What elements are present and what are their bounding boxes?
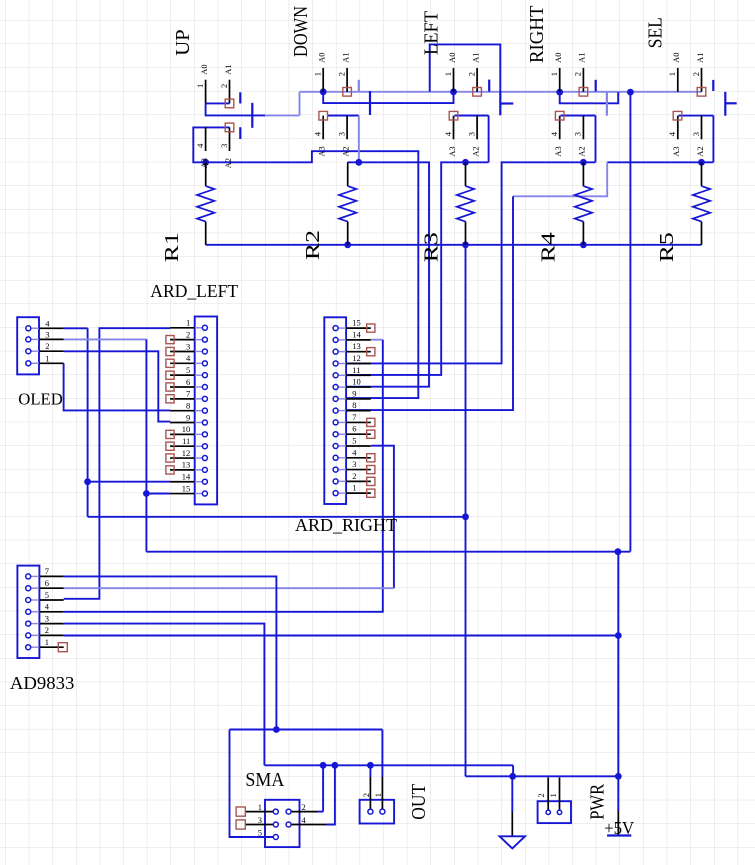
svg-text:11: 11 bbox=[182, 436, 190, 446]
svg-text:1: 1 bbox=[443, 72, 453, 76]
svg-text:RIGHT: RIGHT bbox=[526, 6, 548, 64]
ARD_LEFT pin 11 unconnected square bbox=[166, 442, 174, 450]
RIGHT unconnected pin square bbox=[555, 111, 564, 120]
LEFT pin 3 line bbox=[476, 116, 478, 140]
connector PWR bbox=[536, 778, 609, 824]
svg-text:A0: A0 bbox=[199, 64, 209, 74]
SMA pin 4 bbox=[291, 824, 326, 826]
svg-text:5: 5 bbox=[352, 436, 356, 446]
ARD_RIGHT pin 11 bbox=[346, 374, 371, 376]
svg-text:2: 2 bbox=[691, 72, 701, 76]
resistor R2 bbox=[302, 162, 357, 260]
connector ARD_RIGHT bbox=[295, 317, 397, 535]
svg-text:5: 5 bbox=[258, 828, 262, 838]
resistor R4 bbox=[538, 162, 593, 262]
svg-text:1: 1 bbox=[373, 793, 383, 797]
svg-text:ARD_RIGHT: ARD_RIGHT bbox=[295, 515, 397, 535]
wire: long horizontal y=517 bbox=[88, 516, 466, 518]
svg-text:R2: R2 bbox=[302, 230, 324, 260]
SMA pin 2 bbox=[291, 811, 317, 813]
SEL pin 2 line bbox=[701, 68, 703, 92]
svg-text:13: 13 bbox=[352, 341, 361, 351]
svg-text:DOWN: DOWN bbox=[290, 6, 312, 57]
ARD_LEFT pin 3 bbox=[170, 350, 195, 352]
+5V supply symbol bbox=[604, 811, 634, 838]
wire: AD9833 pin7 to SMA pin5 / OUT pin1 bbox=[64, 576, 277, 729]
junction bbox=[462, 241, 469, 248]
wire: SEL lower row bbox=[679, 115, 714, 117]
ARD_LEFT pin 1 bbox=[170, 327, 195, 329]
ARD_RIGHT pin 5 bbox=[346, 445, 371, 447]
wire: ARD_RIGHT pin5 down to AD9833 pin6 bbox=[371, 446, 394, 589]
wire: jog down to PWR row bbox=[513, 765, 618, 776]
ARD_LEFT pin 5 bbox=[170, 374, 195, 376]
ARD_LEFT pin 12 unconnected square bbox=[166, 454, 174, 462]
svg-text:4: 4 bbox=[667, 131, 677, 136]
ARD_RIGHT pin 10 bbox=[346, 386, 371, 388]
ARD_RIGHT pin 15 unconnected square bbox=[367, 324, 375, 332]
ARD_RIGHT pin 2 unconnected square bbox=[367, 477, 375, 485]
svg-text:2: 2 bbox=[352, 471, 356, 481]
LEFT switch contact bbox=[488, 80, 490, 92]
svg-text:1: 1 bbox=[195, 84, 205, 88]
wire: R2 node to ARD_RIGHT pin10 bbox=[346, 162, 429, 386]
svg-text:PWR: PWR bbox=[587, 783, 609, 820]
pushbutton DOWN bbox=[290, 6, 370, 157]
OLED pin 3 bbox=[31, 338, 39, 340]
RIGHT pin 1 line bbox=[559, 68, 561, 92]
wire: +5V stub bbox=[617, 776, 619, 811]
svg-text:7: 7 bbox=[45, 566, 49, 576]
svg-text:A3: A3 bbox=[671, 146, 681, 156]
svg-text:A1: A1 bbox=[223, 64, 233, 74]
svg-text:2: 2 bbox=[536, 793, 546, 797]
ARD_RIGHT pin 1 unconnected square bbox=[367, 489, 375, 497]
wire: AD9833 pin2 row to +5V vertical bbox=[64, 635, 619, 637]
wire: UP pins1-2 to bus elbow bbox=[206, 103, 265, 115]
svg-text:4: 4 bbox=[186, 353, 191, 363]
wire: +5V branch from bus top at x=630.4 bbox=[629, 92, 631, 551]
LEFT pin 1 line bbox=[453, 68, 455, 92]
OLED pin 1 bbox=[31, 362, 39, 364]
junction bbox=[462, 513, 469, 520]
wire: branch to ARD_LEFT pin14 bbox=[88, 481, 171, 483]
svg-text:10: 10 bbox=[182, 424, 191, 434]
svg-text:A2: A2 bbox=[577, 146, 587, 156]
wire: LEFT lower row bbox=[455, 115, 489, 117]
wire: OLED pin1 down then right to ARD_LEFT pin8 bbox=[64, 363, 171, 410]
svg-text:A0: A0 bbox=[447, 53, 457, 63]
svg-text:3: 3 bbox=[336, 132, 346, 136]
ARD_RIGHT pin 9 bbox=[346, 398, 371, 400]
svg-text:8: 8 bbox=[352, 400, 356, 410]
LEFT switch contact bbox=[499, 91, 501, 115]
svg-text:2: 2 bbox=[45, 625, 49, 635]
svg-text:A1: A1 bbox=[577, 53, 587, 63]
UP pin 2 line bbox=[229, 80, 231, 104]
DOWN pin 4 line bbox=[322, 116, 324, 140]
ARD_RIGHT pin 7 bbox=[346, 421, 371, 423]
svg-text:3: 3 bbox=[219, 144, 229, 148]
svg-text:R3: R3 bbox=[421, 232, 443, 262]
ARD_RIGHT pin 14 bbox=[346, 339, 371, 341]
wire: SEL pin3 drop bbox=[712, 116, 714, 163]
wire: down-left to SMA pin5 bbox=[230, 730, 274, 838]
ARD_RIGHT pin 1 bbox=[346, 492, 371, 494]
ARD_RIGHT pin 3 bbox=[346, 469, 371, 471]
ARD_LEFT pin 2 bbox=[170, 339, 195, 341]
svg-text:9: 9 bbox=[352, 388, 356, 398]
ARD_LEFT pin 5 unconnected square bbox=[166, 371, 174, 379]
wire: OLED pin4 right bbox=[64, 327, 88, 329]
svg-text:A2: A2 bbox=[470, 146, 480, 156]
SEL pin 1 line bbox=[677, 68, 679, 92]
svg-text:6: 6 bbox=[352, 424, 356, 434]
junction bbox=[580, 159, 587, 166]
pushbutton RIGHT bbox=[526, 6, 607, 157]
ARD_RIGHT pin 3 unconnected square bbox=[367, 466, 375, 474]
wire: SEL sense jog light bbox=[513, 162, 607, 196]
ARD_LEFT pin 10 unconnected square bbox=[166, 430, 174, 438]
svg-text:15: 15 bbox=[182, 483, 191, 493]
wire: RIGHT lower row bbox=[561, 115, 596, 117]
junction bbox=[320, 88, 327, 95]
wire: OLED pin3 light to drop bbox=[64, 338, 147, 340]
wire: SMA pin2 up bbox=[322, 765, 324, 811]
wire: DOWN lower row bbox=[328, 115, 359, 117]
svg-text:UP: UP bbox=[172, 29, 194, 56]
PWR pin 2 stub bbox=[547, 778, 549, 811]
svg-text:6: 6 bbox=[45, 578, 49, 588]
junction bbox=[367, 762, 374, 769]
svg-text:A2: A2 bbox=[695, 146, 705, 156]
UP pin 3 line bbox=[229, 127, 231, 151]
wire: AD9833 pin6 light row bbox=[64, 587, 394, 589]
junction bbox=[509, 773, 516, 780]
svg-text:LEFT: LEFT bbox=[420, 11, 442, 55]
UP pin 1 line bbox=[205, 80, 207, 104]
wire: +5V bus across button tops bbox=[300, 91, 702, 93]
ARD_LEFT pin 6 unconnected square bbox=[166, 383, 174, 391]
svg-text:1: 1 bbox=[313, 72, 323, 76]
ARD_LEFT pin 13 unconnected square bbox=[166, 466, 174, 474]
ARD_RIGHT pin 4 unconnected square bbox=[367, 454, 375, 462]
svg-text:3: 3 bbox=[186, 341, 190, 351]
svg-text:A2: A2 bbox=[340, 146, 350, 156]
UP switch contact bbox=[239, 127, 241, 139]
svg-text:R4: R4 bbox=[538, 232, 560, 262]
wire: UP lower row to R1 bbox=[193, 127, 229, 162]
RIGHT switch contact bbox=[606, 92, 608, 116]
ARD_RIGHT pin 6 unconnected square bbox=[367, 430, 375, 438]
svg-text:A0: A0 bbox=[317, 53, 327, 63]
svg-text:2: 2 bbox=[186, 329, 190, 339]
svg-text:4: 4 bbox=[195, 143, 205, 148]
UP unconnected pin square bbox=[225, 99, 234, 108]
connector ARD_LEFT bbox=[150, 281, 238, 504]
SEL pin 4 line bbox=[677, 116, 679, 140]
DOWN switch contact bbox=[369, 91, 371, 115]
wire: bottom net horizontal y=765.3 bbox=[264, 764, 513, 766]
ARD_LEFT pin 15 bbox=[170, 493, 195, 495]
svg-text:3: 3 bbox=[258, 815, 262, 825]
junction bbox=[580, 241, 587, 248]
wire: OLED pin2 to ARD_LEFT pin9 bbox=[64, 351, 171, 421]
svg-text:6: 6 bbox=[186, 377, 190, 387]
svg-text:3: 3 bbox=[352, 459, 356, 469]
DOWN unconnected pin square bbox=[319, 111, 328, 120]
ARD_LEFT pin 2 unconnected square bbox=[166, 336, 174, 344]
svg-text:2: 2 bbox=[219, 84, 229, 88]
svg-text:14: 14 bbox=[352, 329, 361, 339]
svg-text:2: 2 bbox=[45, 341, 49, 351]
svg-text:A3: A3 bbox=[199, 158, 209, 168]
SMA pin 5 bbox=[273, 835, 278, 840]
SEL unconnected pin square bbox=[673, 111, 682, 120]
wire: DOWN pin1 to LEFT pin1 via y=103 bbox=[323, 92, 453, 103]
SMA pin 3 bbox=[246, 824, 274, 826]
wire: R3 node to ARD_RIGHT pin11 bbox=[346, 162, 488, 375]
svg-text:4: 4 bbox=[443, 131, 453, 136]
wire: LEFT pin3 drop bbox=[488, 116, 490, 163]
junction bbox=[615, 773, 622, 780]
svg-text:7: 7 bbox=[352, 412, 356, 422]
svg-text:9: 9 bbox=[186, 412, 190, 422]
OLED pin 4 bbox=[31, 327, 39, 329]
junction bbox=[332, 762, 339, 769]
SEL switch contact bbox=[724, 92, 726, 116]
svg-text:2: 2 bbox=[361, 793, 371, 797]
connector OLED bbox=[17, 317, 63, 408]
AD9833 pin 7 bbox=[31, 575, 40, 577]
wire: branch ARD_LEFT pin15 bbox=[146, 493, 170, 495]
svg-text:13: 13 bbox=[182, 460, 191, 470]
svg-text:A1: A1 bbox=[695, 53, 705, 63]
wire: bus dot R3 drop down +5V rail bbox=[465, 245, 467, 777]
ARD_LEFT pin 4 unconnected square bbox=[166, 359, 174, 367]
ARD_LEFT pin 4 bbox=[170, 362, 195, 364]
svg-text:AD9833: AD9833 bbox=[10, 673, 75, 693]
SEL pin 3 line bbox=[701, 116, 703, 140]
wire: R5 node toward jog bbox=[607, 161, 713, 163]
ARD_RIGHT pin 12 bbox=[346, 362, 371, 364]
AD9833 pin 6 bbox=[31, 587, 40, 589]
wire: RIGHT pin1 U-link to bus bbox=[560, 92, 619, 103]
svg-text:4: 4 bbox=[352, 447, 357, 457]
ARD_LEFT pin 8 bbox=[170, 410, 195, 412]
svg-text:8: 8 bbox=[186, 400, 190, 410]
ARD_RIGHT pin 6 bbox=[346, 433, 371, 435]
resistor R5 bbox=[656, 162, 710, 262]
junction bbox=[355, 159, 362, 166]
LEFT switch contact bbox=[500, 102, 513, 104]
resistor R1 bbox=[161, 162, 215, 262]
wire: AD9833 pin3 down to bottom net bbox=[64, 624, 265, 766]
wire: SMA pin4 up bbox=[327, 765, 335, 824]
OUT pin 1 stub bbox=[381, 777, 383, 809]
ARD_RIGHT pin 7 unconnected square bbox=[367, 418, 375, 426]
junction bbox=[344, 241, 351, 248]
RIGHT unconnected pin square bbox=[579, 88, 588, 97]
AD9833 pin 4 bbox=[31, 611, 40, 613]
junction bbox=[462, 159, 469, 166]
ARD_LEFT pin 7 bbox=[170, 398, 195, 400]
svg-text:A2: A2 bbox=[223, 158, 233, 168]
wire: ARD_RIGHT pin14 down to AD9833 pin4 bbox=[371, 339, 383, 341]
junction bbox=[615, 548, 622, 555]
AD9833 pin 1 bbox=[31, 646, 40, 648]
wire: LEFT net rectangle top bbox=[430, 44, 501, 91]
svg-text:3: 3 bbox=[45, 329, 49, 339]
pushbutton SEL bbox=[644, 17, 736, 157]
ARD_LEFT pin 6 bbox=[170, 386, 195, 388]
svg-text:2: 2 bbox=[302, 802, 306, 812]
junction bbox=[202, 159, 209, 166]
svg-text:1: 1 bbox=[45, 637, 49, 647]
svg-text:4: 4 bbox=[45, 602, 50, 612]
DOWN unconnected pin square bbox=[343, 88, 352, 97]
svg-text:1: 1 bbox=[667, 72, 677, 76]
SEL switch contact bbox=[712, 80, 714, 91]
svg-text:14: 14 bbox=[182, 472, 191, 482]
LEFT unconnected pin square bbox=[473, 88, 482, 97]
UP switch contact bbox=[251, 103, 253, 128]
svg-text:2: 2 bbox=[336, 72, 346, 76]
svg-text:R5: R5 bbox=[656, 232, 678, 262]
svg-text:A1: A1 bbox=[340, 53, 350, 63]
svg-text:1: 1 bbox=[549, 72, 559, 76]
wire: AD9833 pin5 up to ARD_LEFT pin1 bbox=[64, 328, 170, 599]
LEFT unconnected pin square bbox=[449, 111, 458, 120]
svg-text:3: 3 bbox=[466, 132, 476, 136]
junction bbox=[556, 89, 563, 96]
svg-text:A0: A0 bbox=[671, 53, 681, 63]
resistor R3 bbox=[421, 162, 475, 262]
svg-text:ARD_LEFT: ARD_LEFT bbox=[150, 281, 238, 301]
svg-text:A3: A3 bbox=[553, 146, 563, 156]
ARD_LEFT pin 14 bbox=[170, 481, 195, 483]
RIGHT switch contact bbox=[595, 80, 597, 92]
svg-text:12: 12 bbox=[352, 353, 361, 363]
ARD_LEFT pin 3 unconnected square bbox=[166, 347, 174, 355]
OLED pin 2 bbox=[31, 350, 39, 352]
svg-text:R1: R1 bbox=[161, 232, 183, 262]
RIGHT pin 2 line bbox=[582, 68, 584, 92]
svg-text:SEL: SEL bbox=[644, 17, 666, 48]
LEFT pin 4 line bbox=[453, 116, 455, 140]
ARD_RIGHT pin 13 unconnected square bbox=[367, 348, 375, 356]
svg-text:10: 10 bbox=[352, 377, 361, 387]
pushbutton LEFT bbox=[420, 11, 513, 157]
wire: UP pin1-pin2 row bbox=[206, 102, 230, 104]
ARD_LEFT pin 13 bbox=[170, 469, 195, 471]
wire: OLED pin4 drop to ARD_LEFT pin14 and +5V row bbox=[87, 328, 89, 517]
svg-text:A3: A3 bbox=[447, 146, 457, 156]
UP switch contact bbox=[239, 92, 241, 103]
ARD_RIGHT pin 15 bbox=[346, 327, 371, 329]
RIGHT pin 4 line bbox=[559, 116, 561, 140]
junction bbox=[698, 159, 705, 166]
pushbutton UP bbox=[172, 29, 253, 168]
svg-text:3: 3 bbox=[45, 613, 49, 623]
svg-text:2: 2 bbox=[573, 72, 583, 76]
wire: OUT pin2 drop bbox=[369, 765, 371, 777]
svg-text:A0: A0 bbox=[553, 53, 563, 63]
connector OUT bbox=[360, 777, 431, 824]
ARD_RIGHT pin 4 bbox=[346, 457, 371, 459]
svg-text:A1: A1 bbox=[470, 53, 480, 63]
svg-text:1: 1 bbox=[186, 318, 190, 328]
SEL unconnected pin square bbox=[697, 88, 706, 97]
svg-text:A3: A3 bbox=[317, 146, 327, 156]
junction bbox=[450, 88, 457, 95]
ARD_RIGHT pin 2 bbox=[346, 480, 371, 482]
svg-text:12: 12 bbox=[182, 448, 191, 458]
UP unconnected pin square bbox=[225, 123, 234, 132]
svg-text:11: 11 bbox=[352, 365, 360, 375]
svg-text:3: 3 bbox=[691, 132, 701, 136]
wire: OUT pin1 drop bbox=[381, 730, 383, 778]
wire: RIGHT pin3 drop bbox=[595, 116, 597, 163]
junction bbox=[84, 478, 91, 485]
AD9833 pin 1 unconnected square bbox=[58, 643, 67, 652]
ARD_RIGHT pin 8 bbox=[346, 410, 371, 412]
AD9833 pin 3 bbox=[31, 623, 40, 625]
ground symbol bbox=[500, 776, 525, 848]
svg-text:5: 5 bbox=[45, 590, 49, 600]
AD9833 pin 2 bbox=[31, 634, 40, 636]
ARD_LEFT pin 7 unconnected square bbox=[166, 395, 174, 403]
junction bbox=[320, 762, 327, 769]
RIGHT pin 3 line bbox=[582, 116, 584, 140]
svg-text:SMA: SMA bbox=[245, 769, 284, 791]
wire: jog down to ARD_RIGHT pin8 bbox=[346, 196, 513, 410]
DOWN pin 2 line bbox=[346, 68, 348, 92]
wire: resistor bottom bus bbox=[205, 244, 207, 246]
wire: +5V center vertical bbox=[617, 552, 619, 777]
ARD_LEFT pin 10 bbox=[170, 433, 195, 435]
junction bbox=[627, 89, 634, 96]
UP pin 4 line bbox=[205, 127, 207, 151]
ARD_LEFT pin 9 bbox=[170, 422, 195, 424]
svg-text:2: 2 bbox=[466, 72, 476, 76]
DOWN pin 1 line bbox=[322, 68, 324, 92]
AD9833 pin 5 bbox=[31, 599, 40, 601]
wire: R4 node to ARD_RIGHT pin12 bbox=[346, 162, 595, 363]
connector SMA bbox=[236, 769, 326, 847]
ARD_RIGHT pin 13 bbox=[346, 351, 371, 353]
svg-text:+5V: +5V bbox=[604, 818, 634, 838]
junction bbox=[143, 490, 150, 497]
SMA pin 1 bbox=[246, 811, 274, 813]
svg-text:3: 3 bbox=[573, 132, 583, 136]
DOWN pin 3 line bbox=[346, 116, 348, 140]
connector AD9833 bbox=[10, 566, 75, 693]
svg-text:7: 7 bbox=[186, 389, 190, 399]
wire: long horizontal y=551.7 bbox=[146, 551, 630, 553]
PWR pin 1 stub bbox=[559, 778, 561, 811]
svg-text:1: 1 bbox=[45, 353, 49, 363]
wire: OUT pin1 net horizontal bbox=[230, 729, 383, 731]
wire: DOWN pin3 drop to R2 node bbox=[358, 116, 360, 163]
LEFT pin 2 line bbox=[476, 68, 478, 92]
wire: OLED pin3 net down to pin15 and +5V row bbox=[145, 339, 147, 551]
svg-text:1: 1 bbox=[548, 793, 558, 797]
wire: R1 node to jog to ARD_RIGHT pin9 bbox=[206, 151, 419, 398]
junction bbox=[273, 726, 280, 733]
svg-text:15: 15 bbox=[352, 318, 361, 328]
OUT pin 2 stub bbox=[369, 777, 371, 809]
